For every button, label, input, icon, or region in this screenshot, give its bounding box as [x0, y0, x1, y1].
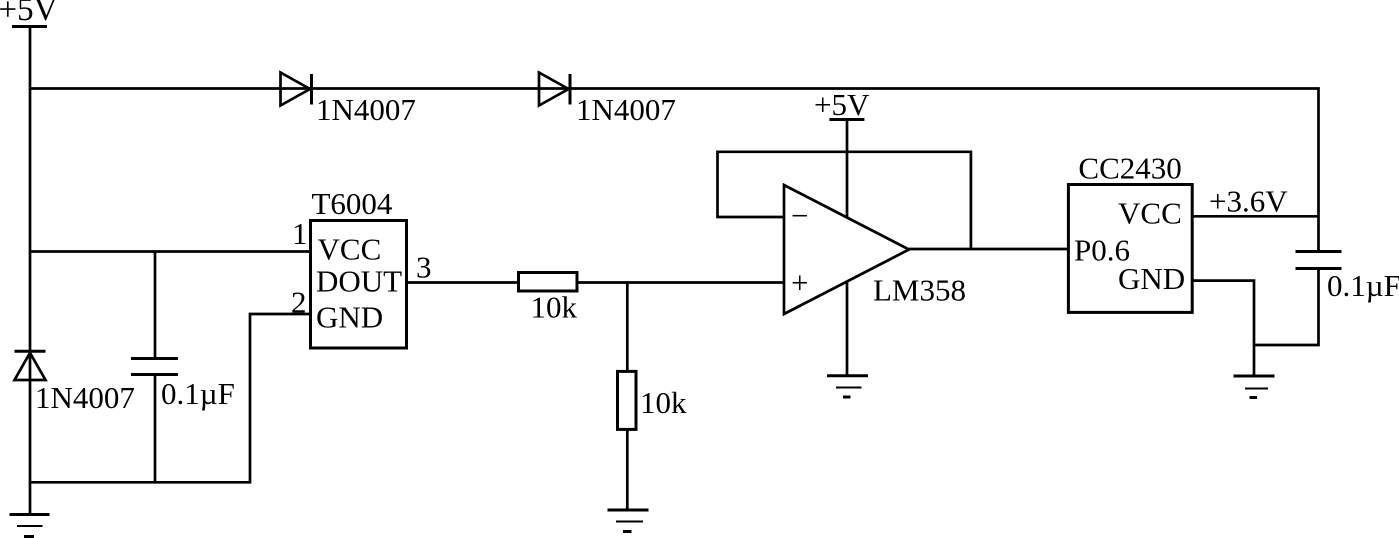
wire to T6004 pin 1 — [30, 250, 311, 253]
power +5V rail bar — [12, 25, 47, 28]
svg-text:0.1µF: 0.1µF — [1327, 268, 1399, 303]
svg-text:10k: 10k — [640, 385, 687, 420]
ground G3 (below CC2430) — [1234, 376, 1275, 398]
svg-text:GND: GND — [1118, 261, 1185, 296]
resistor R2 10k (vertical) — [618, 371, 637, 429]
node +5V supply label (top-left) — [0, 0, 57, 20]
wire left vertical rail — [29, 27, 32, 515]
svg-text:T6004: T6004 — [312, 186, 393, 221]
svg-text:−: − — [791, 198, 808, 233]
svg-text:10k: 10k — [531, 290, 578, 325]
svg-text:CC2430: CC2430 — [1078, 151, 1181, 186]
svg-text:1N4007: 1N4007 — [316, 92, 416, 127]
wire ground net to C3 bottom — [1254, 269, 1319, 346]
ground G1 (bottom-left) — [10, 515, 50, 537]
capacitor C3 0.1uF (right) — [1296, 252, 1342, 269]
power +5V bar (op-amp) — [829, 118, 864, 121]
wire CC2430 VCC to +3.6V rail — [1192, 215, 1318, 218]
wire CC2430 GND down to ground — [1192, 281, 1254, 376]
IC U1 T6004 box — [311, 221, 407, 349]
svg-text:3: 3 — [416, 250, 432, 285]
svg-text:VCC: VCC — [318, 232, 382, 267]
wire bottom net with riser to T6004 pin 2 — [30, 314, 311, 482]
wire op-amp V- to ground — [846, 282, 849, 376]
ground G4 (below R2) — [608, 510, 649, 532]
wire T6004 pin 3 to R1 — [407, 281, 519, 284]
IC U3 CC2430 box — [1068, 185, 1192, 313]
wire top horizontal rail with right vertical drop — [30, 89, 1319, 252]
diode D3 1N4007 (left rail, pointing up) — [15, 351, 46, 380]
svg-text:0.1µF: 0.1µF — [161, 376, 235, 411]
svg-text:+: + — [791, 265, 808, 300]
svg-text:LM358: LM358 — [873, 273, 966, 308]
wire +5V to op-amp V+ — [846, 120, 849, 218]
svg-text:1N4007: 1N4007 — [576, 92, 676, 127]
capacitor C1 0.1uF (left) — [131, 252, 178, 483]
svg-text:GND: GND — [316, 300, 383, 335]
svg-text:1N4007: 1N4007 — [35, 380, 135, 415]
resistor R1 10k (horizontal) — [519, 273, 578, 292]
svg-text:+5V: +5V — [814, 87, 870, 122]
diode D1 1N4007 (top rail, left) — [281, 73, 312, 106]
diode D2 1N4007 (top rail, right) — [539, 73, 570, 106]
wire R2 to ground — [626, 429, 629, 510]
svg-text:1: 1 — [292, 216, 308, 251]
wire feedback loop (inverting input to output) — [718, 152, 971, 249]
wire op-amp output to CC2430 P0.6 — [909, 248, 1068, 251]
svg-text:DOUT: DOUT — [316, 264, 402, 299]
svg-text:VCC: VCC — [1118, 196, 1182, 231]
svg-text:+3.6V: +3.6V — [1209, 184, 1288, 219]
wire junction riser to R2 — [626, 283, 629, 372]
svg-text:2: 2 — [291, 285, 307, 320]
wire R1 to op-amp non-inverting input — [577, 281, 784, 284]
ground G2 (below op-amp) — [827, 376, 868, 397]
op-amp U2 LM358 triangle — [784, 185, 909, 314]
